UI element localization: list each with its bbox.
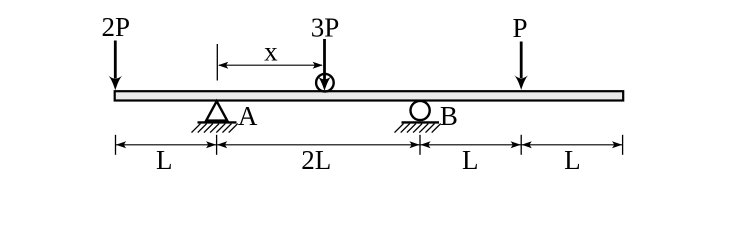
- x dimension line: [219, 64, 322, 66]
- svg-text:L: L: [462, 145, 479, 175]
- svg-text:x: x: [264, 37, 278, 67]
- support A pin triangle: [206, 101, 227, 120]
- arrows of segment L1: [116, 141, 126, 148]
- svg-text:A: A: [238, 101, 258, 131]
- support A hatching: [192, 124, 238, 133]
- x dimension left arrow: [218, 62, 228, 69]
- dimension tick at B: [419, 135, 421, 155]
- svg-text:L: L: [564, 145, 581, 175]
- svg-text:2P: 2P: [102, 12, 131, 42]
- arrows of segment L3: [420, 141, 430, 148]
- circle at 3P application point: [316, 74, 334, 92]
- x dimension right arrow: [313, 62, 323, 69]
- beam: [115, 91, 624, 100]
- dimension tick left end: [115, 135, 117, 155]
- load 2P arrow: [109, 41, 123, 91]
- svg-text:3P: 3P: [311, 13, 340, 43]
- arrows of segment 2L: [217, 141, 227, 148]
- bottom dimension line: [116, 144, 623, 146]
- svg-text:L: L: [156, 145, 173, 175]
- arrows of segment L4: [522, 141, 532, 148]
- svg-text:2L: 2L: [301, 145, 331, 175]
- dimension tick right end: [622, 135, 624, 155]
- support B roller circle: [411, 101, 430, 120]
- dimension tick at P: [520, 135, 522, 155]
- dimension tick at A: [216, 135, 218, 155]
- support A ground line: [198, 121, 237, 123]
- x dimension tick: [216, 44, 218, 81]
- load P arrow: [514, 42, 528, 91]
- svg-text:B: B: [440, 101, 458, 131]
- load 3P arrow: [318, 39, 332, 91]
- support B ground line: [402, 121, 440, 123]
- svg-text:P: P: [512, 13, 527, 43]
- support B hatching: [395, 124, 441, 133]
